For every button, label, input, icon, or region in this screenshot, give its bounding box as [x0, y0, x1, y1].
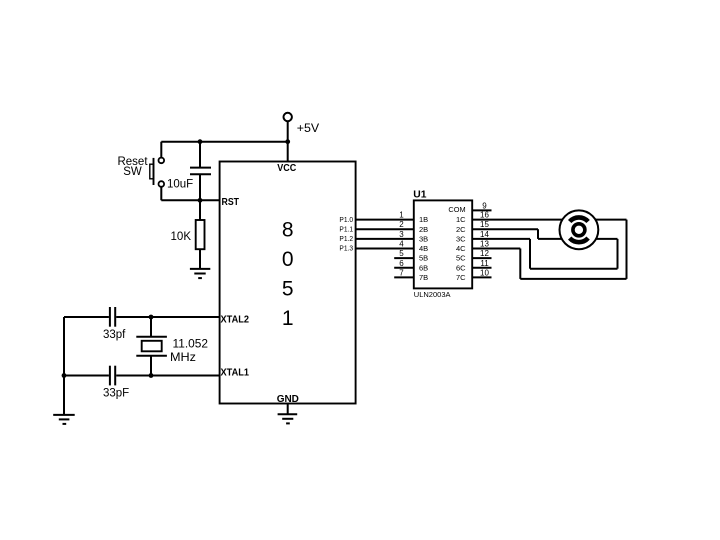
wire crystal bottom	[150, 356, 152, 376]
pin number 13	[480, 240, 489, 249]
svg-text:U1: U1	[413, 189, 426, 201]
junction dot at cap top	[198, 139, 203, 144]
wire rail to switch top	[160, 142, 162, 158]
pin number 15	[480, 220, 489, 229]
svg-text:ULN2003A: ULN2003A	[414, 290, 451, 299]
junction dot at RST node	[198, 198, 203, 203]
svg-text:COM: COM	[448, 205, 465, 214]
svg-text:1: 1	[282, 307, 294, 330]
svg-text:7: 7	[399, 268, 404, 277]
pin label 7C	[456, 273, 466, 282]
pin label P1.3	[339, 246, 353, 253]
pin label 3B	[419, 235, 428, 244]
svg-text:VCC: VCC	[277, 163, 296, 174]
stub pin 7	[394, 276, 414, 278]
svg-text:3C: 3C	[456, 235, 466, 244]
svg-text:4: 4	[399, 240, 404, 249]
ground below 8051	[278, 414, 298, 423]
svg-text:11: 11	[480, 259, 489, 268]
wire P1.1 to 2B	[356, 228, 414, 230]
svg-text:1C: 1C	[456, 215, 466, 224]
svg-text:6: 6	[399, 259, 404, 268]
wire 3C horizontal	[472, 238, 530, 240]
svg-text:9: 9	[482, 201, 487, 210]
pin label 1C	[456, 215, 466, 224]
svg-text:XTAL2: XTAL2	[221, 314, 250, 325]
pin number 7	[399, 268, 404, 277]
pin label XTAL2	[221, 314, 250, 325]
svg-text:33pF: 33pF	[103, 387, 129, 399]
pin label 2C	[456, 225, 466, 234]
pin label XTAL1	[221, 367, 250, 378]
stub pin 9 COM	[472, 209, 491, 211]
junction dot XTAL1 left	[62, 373, 67, 378]
ground below R1	[190, 269, 210, 278]
pin label 6B	[419, 263, 428, 272]
svg-text:P1.1: P1.1	[339, 226, 353, 233]
svg-text:P1.3: P1.3	[339, 246, 353, 253]
svg-text:7B: 7B	[419, 273, 428, 282]
wire inner left vertical	[529, 239, 531, 269]
svg-text:6C: 6C	[456, 263, 466, 272]
stub pin 12	[472, 257, 491, 259]
svg-text:3B: 3B	[419, 235, 428, 244]
wire P1.0 to 1B	[356, 219, 414, 221]
svg-text:3: 3	[399, 230, 404, 239]
svg-text:2C: 2C	[456, 225, 466, 234]
label U1	[413, 189, 426, 201]
svg-text:+5V: +5V	[297, 121, 319, 135]
label 33pF	[103, 387, 129, 399]
ground left of crystal	[53, 415, 74, 424]
pin label RST	[222, 197, 240, 208]
wire left vertical to ground	[63, 317, 65, 415]
svg-text:16: 16	[480, 211, 489, 220]
pin number 16	[480, 211, 489, 220]
svg-text:4B: 4B	[419, 244, 428, 253]
pin label GND	[277, 394, 299, 405]
svg-text:4C: 4C	[456, 244, 466, 253]
wire C1 bottom to RST node	[199, 174, 201, 200]
wire RST horizontal	[161, 199, 219, 201]
wire RST node to R1	[199, 200, 201, 220]
wire top horizontal rail	[161, 141, 287, 143]
pin label 3C	[456, 235, 466, 244]
wire switch bottom	[160, 187, 162, 201]
resistor R1 10K body	[196, 220, 205, 249]
svg-text:11.052: 11.052	[173, 337, 209, 351]
motor M1 stepper	[560, 210, 599, 249]
label Reset SW	[117, 156, 148, 178]
pin label 4B	[419, 244, 428, 253]
pin label P1.1	[339, 226, 353, 233]
wire R1 to ground	[199, 249, 201, 269]
stub pin 6	[394, 267, 414, 269]
pin number 9	[482, 201, 487, 210]
label 10uF	[167, 178, 193, 190]
pin label 5C	[456, 254, 466, 263]
svg-text:13: 13	[480, 240, 489, 249]
svg-text:RST: RST	[222, 197, 240, 208]
svg-text:P1.0: P1.0	[339, 217, 353, 224]
wire GND stub	[287, 404, 289, 415]
capacitor C1 10uF plates	[190, 168, 211, 175]
pin number 5	[399, 249, 404, 258]
pin number 10	[480, 268, 489, 277]
junction dot XTAL2 crystal	[149, 315, 154, 320]
svg-text:10uF: 10uF	[167, 178, 193, 190]
wire P1.3 to 4B	[356, 248, 414, 250]
svg-text:MHz: MHz	[170, 350, 196, 364]
pin label 5B	[419, 254, 428, 263]
pin number 2	[399, 220, 404, 229]
svg-text:8: 8	[282, 218, 294, 241]
pin label 1B	[419, 215, 428, 224]
crystal Y1	[136, 337, 167, 356]
label 10K	[171, 231, 192, 243]
pin number 11	[480, 259, 489, 268]
label 8051 digits	[282, 218, 294, 330]
wire 2C jog vertical	[537, 229, 539, 239]
svg-text:10K: 10K	[171, 231, 192, 243]
svg-text:7C: 7C	[456, 273, 466, 282]
stub pin 10	[472, 276, 491, 278]
label 11.052 MHz	[170, 337, 208, 364]
svg-text:5: 5	[282, 278, 294, 301]
pin label P1.0	[339, 217, 353, 224]
pin number 1	[399, 211, 404, 220]
svg-text:10: 10	[480, 268, 489, 277]
pin label 2B	[419, 225, 428, 234]
wire inner bottom horizontal	[530, 268, 618, 270]
label +5V	[297, 121, 319, 135]
switch SW1 Reset pushbutton	[150, 158, 164, 187]
pin label COM	[448, 205, 465, 214]
wire XTAL2 right segment	[116, 316, 219, 318]
wire rail to C1 top	[199, 142, 201, 168]
svg-text:XTAL1: XTAL1	[221, 367, 250, 378]
svg-text:5: 5	[399, 249, 404, 258]
svg-text:15: 15	[480, 220, 489, 229]
svg-text:5C: 5C	[456, 254, 466, 263]
wire XTAL1 left segment	[64, 375, 109, 377]
svg-text:SW: SW	[123, 166, 142, 178]
svg-text:12: 12	[480, 249, 489, 258]
wire outer left vertical	[519, 249, 521, 279]
wire inner right vertical	[617, 239, 619, 269]
pin label 6C	[456, 263, 466, 272]
wire 4C horizontal	[472, 248, 520, 250]
svg-text:1: 1	[399, 211, 404, 220]
pin number 12	[480, 249, 489, 258]
wire +5V to VCC vertical	[287, 121, 289, 161]
svg-text:6B: 6B	[419, 263, 428, 272]
wire XTAL1 right segment	[116, 375, 219, 377]
pin label VCC	[277, 163, 296, 174]
+5V terminal circle	[284, 113, 292, 121]
svg-text:14: 14	[480, 230, 489, 239]
svg-text:GND: GND	[277, 394, 299, 405]
svg-text:1B: 1B	[419, 215, 428, 224]
stub pin 5	[394, 257, 414, 259]
svg-text:2: 2	[399, 220, 404, 229]
junction dot XTAL1 crystal	[149, 373, 154, 378]
pin number 3	[399, 230, 404, 239]
svg-text:0: 0	[282, 248, 294, 271]
svg-text:5B: 5B	[419, 254, 428, 263]
pin label 7B	[419, 273, 428, 282]
pin number 4	[399, 240, 404, 249]
wire outer bottom horizontal	[520, 278, 626, 280]
IC U1 ULN2003A body	[414, 200, 472, 288]
pin number 6	[399, 259, 404, 268]
wire XTAL2 left segment	[64, 316, 109, 318]
svg-text:2B: 2B	[419, 225, 428, 234]
wire 1C to motor top row	[472, 219, 626, 221]
capacitor C2 33pf plates	[110, 307, 115, 327]
pin number 14	[480, 230, 489, 239]
wire right outer vertical	[626, 220, 628, 279]
wire motor bottom row	[538, 238, 618, 240]
svg-text:P1.2: P1.2	[339, 236, 353, 243]
junction dot at +5V rail	[285, 139, 290, 144]
label 33pf	[103, 329, 126, 341]
wire 2C horizontal	[472, 228, 538, 230]
svg-text:33pf: 33pf	[103, 329, 126, 341]
stub pin 11	[472, 267, 491, 269]
wire P1.2 to 3B	[356, 238, 414, 240]
pin label P1.2	[339, 236, 353, 243]
IC U2 8051 body	[220, 162, 356, 404]
pin label 4C	[456, 244, 466, 253]
capacitor C3 33pF plates	[110, 366, 115, 386]
wire crystal top	[150, 317, 152, 337]
label ULN2003A	[414, 290, 451, 299]
